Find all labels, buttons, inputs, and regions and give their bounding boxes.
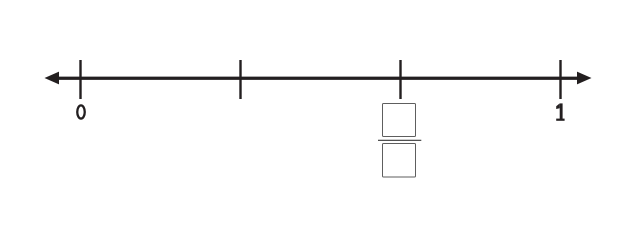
tick at 2/3 — [399, 60, 401, 99]
left arrowhead — [45, 72, 60, 85]
label 0 — [77, 105, 85, 118]
fraction denominator box — [383, 144, 416, 178]
fraction numerator box — [383, 104, 416, 137]
fraction bar — [378, 139, 421, 141]
number line shaft — [56, 77, 580, 80]
label 1 — [556, 103, 564, 120]
tick at 1 — [559, 60, 561, 99]
tick at 1/3 — [239, 60, 241, 99]
right arrowhead — [577, 72, 592, 85]
tick at 0 — [79, 60, 81, 99]
